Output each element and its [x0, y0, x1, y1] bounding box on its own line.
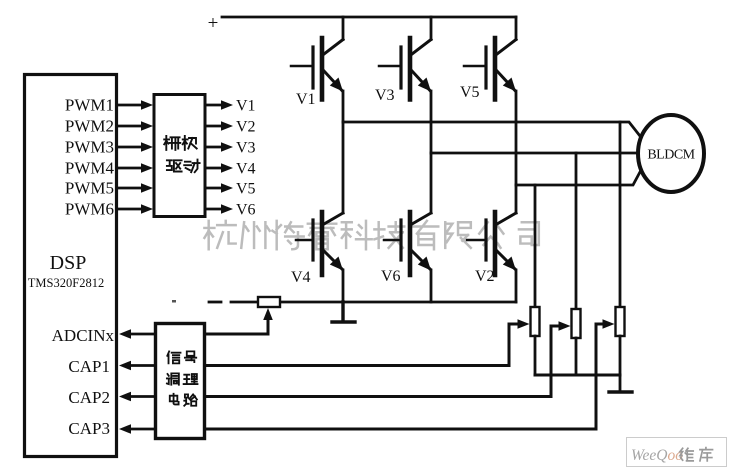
- PWM wires DSP to gate driver with arrows: [117, 105, 142, 209]
- svg-text:V5: V5: [236, 181, 256, 198]
- wire: R2 bottom to common node: [575, 338, 578, 375]
- arrowhead ADCINx into DSP: [119, 329, 131, 339]
- arrowhead PWM1 into gate driver: [141, 100, 153, 110]
- signal conditioning block: [156, 324, 205, 439]
- arrowhead PWM3 into gate driver: [141, 142, 153, 152]
- wire PWM3: [117, 146, 142, 149]
- wire: phase C to V2 collector: [515, 185, 518, 213]
- wire: phase C tap to sense resistor R1: [534, 185, 537, 307]
- IGBT V4: [296, 212, 343, 275]
- svg-text:CAP1: CAP1: [68, 357, 110, 376]
- wire: V6 emitter to - rail: [430, 270, 433, 302]
- wire: R1 bottom to common node: [534, 336, 537, 375]
- wire PWM2: [117, 125, 142, 128]
- CAP1 wire: signal block to R1 tap: [205, 324, 518, 366]
- svg-text:TMS320F2812: TMS320F2812: [28, 276, 104, 290]
- svg-text:CAP2: CAP2: [68, 388, 110, 407]
- arrowhead PWM6 into gate driver: [141, 204, 153, 214]
- svg-text:V6: V6: [236, 202, 256, 219]
- watermark: company name (will stay under circuit): [204, 221, 538, 249]
- svg-text:V2: V2: [236, 119, 256, 136]
- sense resistor R2: [572, 309, 581, 338]
- motor M (BLDCM): [638, 115, 704, 192]
- IGBT V1: [291, 38, 343, 100]
- wire: R3 bottom to ground: [619, 336, 622, 392]
- arrowhead net V4: [221, 163, 233, 173]
- svg-text:V1: V1: [296, 91, 316, 108]
- wire: phase A tap to sense resistor R3: [619, 122, 622, 307]
- svg-text:CAP3: CAP3: [68, 419, 110, 438]
- sense resistor R1: [531, 307, 540, 336]
- svg-text:V5: V5: [460, 84, 480, 101]
- arrowhead CAP3 into DSP: [119, 424, 131, 434]
- wire CAP2 into DSP: [130, 395, 154, 398]
- wire to V3 label: [206, 146, 222, 149]
- DSP block U1: [25, 75, 117, 457]
- wire PWM1: [117, 104, 142, 107]
- wire to V1 label: [206, 104, 222, 107]
- wire: phase B tap to sense resistor R2: [575, 153, 578, 309]
- svg-text:+: +: [208, 13, 219, 34]
- svg-text:WeeQoo: WeeQoo: [631, 447, 683, 464]
- wire to V4 label: [206, 167, 222, 170]
- arrowhead net V5: [221, 183, 233, 193]
- svg-text:PWM2: PWM2: [65, 117, 114, 136]
- wire to V5 label: [206, 187, 222, 190]
- arrow into R2: [559, 321, 571, 331]
- wire: V3 collector drop from + rail: [430, 17, 433, 40]
- svg-text:V6: V6: [381, 268, 401, 285]
- svg-text:DSP: DSP: [50, 252, 87, 274]
- svg-text:PWM4: PWM4: [65, 159, 115, 178]
- common node wire under sense resistors: [535, 374, 620, 377]
- CIRCUIT: [25, 75, 206, 457]
- wire: V4 emitter to - rail: [342, 270, 345, 302]
- IGBT V6: [384, 212, 431, 275]
- CAP3 wire: signal block to R3 tap: [205, 324, 603, 429]
- ground at sense resistor network: [609, 390, 632, 393]
- svg-text:V3: V3: [375, 87, 395, 104]
- wire CAP1 into DSP: [130, 364, 154, 367]
- signal conditioning block text: [167, 351, 198, 405]
- arrowhead PWM4 into gate driver: [141, 163, 153, 173]
- feedback wires into DSP with arrows: [130, 334, 154, 429]
- svg-text:V4: V4: [291, 269, 311, 286]
- svg-text:BLDCM: BLDCM: [647, 148, 695, 163]
- wire to V6 label: [206, 208, 222, 211]
- arrow into R3: [603, 319, 615, 329]
- svg-text:V4: V4: [236, 161, 256, 178]
- arrowhead CAP1 into DSP: [119, 361, 131, 371]
- phase A wire (V1/V4 node to motor): [343, 122, 640, 136]
- ADCINx wire: signal block to shunt: [205, 318, 268, 334]
- wire: V3 emitter to phase B: [430, 91, 433, 153]
- svg-text:PWM3: PWM3: [65, 138, 114, 157]
- arrowhead CAP2 into DSP: [119, 392, 131, 402]
- arrowhead net V3: [221, 142, 233, 152]
- CAP2 wire: signal block to R2 tap: [205, 326, 559, 397]
- svg-text:PWM1: PWM1: [65, 96, 114, 115]
- wire: V5 emitter to phase C: [515, 91, 518, 185]
- gate drive output wires V1..V6: [206, 105, 222, 209]
- phase C wire (V5/V2 node to motor): [516, 172, 640, 185]
- ground at V4 emitter: [332, 302, 355, 322]
- IGBT V2: [467, 212, 516, 275]
- wire ADCINx into DSP: [130, 333, 154, 336]
- wires and symbols: [205, 17, 640, 429]
- - DC rail through shunt: [231, 301, 516, 304]
- IGBT V3: [379, 38, 431, 100]
- arrowhead PWM2 into gate driver: [141, 121, 153, 131]
- wire PWM6: [117, 208, 142, 211]
- wire PWM5: [117, 187, 142, 190]
- arrowhead net V2: [221, 121, 233, 131]
- wire: phase B to V6 collector: [430, 153, 433, 213]
- wire: V2 emitter to - rail: [515, 270, 518, 302]
- stray scan dot: [172, 300, 176, 303]
- wire: V5 collector drop from + rail: [515, 17, 518, 40]
- + DC rail: [222, 16, 516, 19]
- arrowhead net V1: [221, 100, 233, 110]
- svg-text:V3: V3: [236, 140, 256, 157]
- arrow into shunt (ADCINx): [263, 308, 273, 320]
- wire to V2 label: [206, 125, 222, 128]
- WeeQoo watermark box: [627, 438, 727, 467]
- wire PWM4: [117, 167, 142, 170]
- svg-text:V2: V2: [475, 268, 495, 285]
- wire: phase A to V4 collector: [342, 122, 345, 213]
- gate driver block: [154, 95, 205, 217]
- gate driver block text: [164, 136, 199, 172]
- wire CAP3 into DSP: [130, 428, 154, 431]
- arrowhead net V6: [221, 204, 233, 214]
- arrow into R1: [518, 319, 530, 329]
- svg-text:V1: V1: [236, 98, 256, 115]
- phase B wire (V3/V6 node to motor): [431, 152, 638, 155]
- svg-text:ADCINx: ADCINx: [52, 326, 115, 345]
- arrowheads: [263, 308, 614, 331]
- wire: V1 collector drop from + rail: [342, 17, 345, 40]
- svg-text:PWM5: PWM5: [65, 179, 114, 198]
- minus sign of DC bus: [209, 301, 221, 304]
- sense resistor R3: [616, 307, 625, 336]
- shunt resistor (current sense): [258, 297, 280, 307]
- wire: V1 emitter to phase A: [342, 91, 345, 122]
- svg-text:PWM6: PWM6: [65, 200, 114, 219]
- arrowhead PWM5 into gate driver: [141, 183, 153, 193]
- IGBT V5: [464, 38, 516, 100]
